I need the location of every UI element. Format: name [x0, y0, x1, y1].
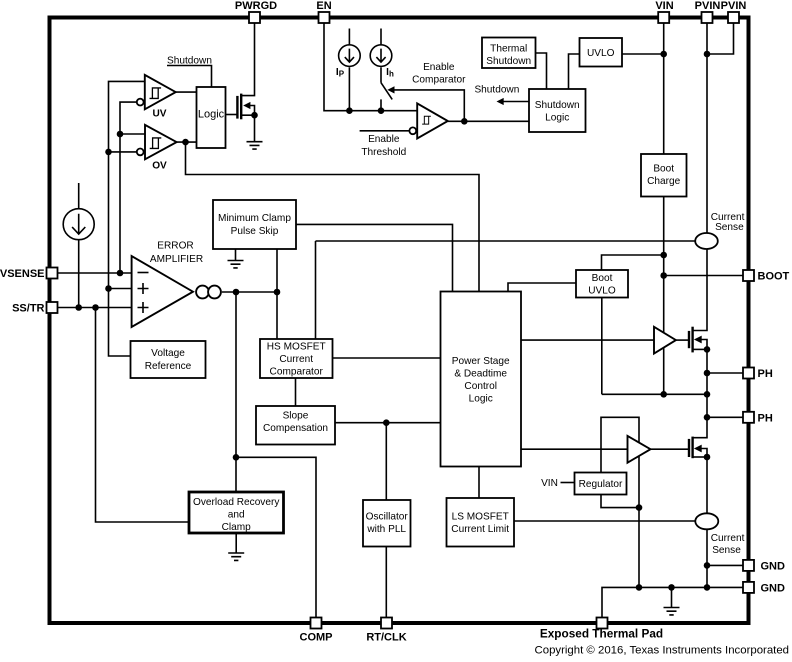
box Regulator [575, 473, 627, 495]
wire PWRGD drain to pin [241, 23, 254, 96]
svg-text:Voltage: Voltage [151, 348, 185, 359]
svg-text:Charge: Charge [647, 176, 680, 187]
pin PVIN 1 [702, 12, 713, 23]
wire UVLO to Shutdown Logic [569, 54, 580, 89]
svg-text:Shutdown: Shutdown [474, 85, 519, 96]
wire ground row to exposed pad [602, 587, 743, 617]
pin PWRGD [249, 12, 260, 23]
wire Ih current source stub and lead [380, 29, 382, 83]
svg-text:Thermal: Thermal [490, 44, 527, 55]
box Slope Compensation [256, 406, 335, 445]
svg-text:Enable: Enable [368, 134, 400, 145]
svg-text:UV: UV [152, 108, 166, 119]
wire current sense line to minimum clamp net [316, 240, 696, 242]
wire reference net vertical A [109, 81, 145, 356]
svg-text:GND: GND [761, 561, 786, 573]
svg-text:IP: IP [336, 67, 345, 79]
svg-text:Enable: Enable [423, 62, 455, 73]
wire boot return to PH node and Boot UVLO bottom [602, 298, 707, 395]
svg-text:VSENSE: VSENSE [0, 268, 45, 280]
svg-text:Logic: Logic [469, 394, 493, 405]
box Boot UVLO [576, 270, 628, 298]
svg-text:ERROR: ERROR [157, 241, 193, 252]
svg-text:& Deadtime: & Deadtime [454, 369, 507, 380]
pin COMP [311, 618, 322, 629]
pin VIN [658, 12, 669, 23]
svg-text:Sense: Sense [715, 222, 744, 233]
svg-text:Logic: Logic [198, 109, 225, 121]
current sense top ellipse [695, 233, 718, 249]
ground at Minimum Clamp [228, 261, 244, 268]
svg-text:Shutdown: Shutdown [167, 56, 212, 67]
switch blade Ih [381, 83, 392, 111]
wire PH pin 2 line [707, 416, 743, 418]
svg-text:AMPLIFIER: AMPLIFIER [150, 254, 203, 265]
wire VIN pin down to Boot Charge [663, 23, 665, 154]
label Current Sense top [711, 212, 745, 233]
box HS MOSFET Current Comparator [260, 339, 333, 378]
wire VIN label tap to Regulator [561, 482, 575, 484]
svg-text:Control: Control [464, 381, 497, 392]
wire PH pin 1 line [707, 372, 743, 374]
wire OV comparator output [177, 141, 197, 143]
box Logic [197, 87, 226, 148]
svg-text:Shutdown: Shutdown [535, 100, 580, 111]
wire Minimum Clamp output to Power Stage top [296, 224, 453, 291]
svg-text:Current: Current [711, 533, 745, 544]
box Minimum Clamp Pulse Skip [213, 200, 296, 249]
wire LS limit output to current sense [514, 520, 695, 522]
pin PH 1 [743, 368, 754, 379]
svg-text:UVLO: UVLO [588, 286, 616, 297]
svg-text:Compensation: Compensation [263, 423, 328, 434]
svg-text:Comparator: Comparator [270, 366, 324, 377]
wire slope compensation output [335, 422, 441, 424]
svg-text:Power Stage: Power Stage [452, 356, 510, 367]
comparator enable [409, 103, 447, 138]
svg-text:and: and [228, 510, 245, 521]
current sense bottom ellipse [695, 513, 718, 529]
svg-text:LS MOSFET: LS MOSFET [452, 512, 509, 523]
wire Boot UVLO left to Power Stage top [508, 283, 576, 292]
wire Power Stage to HS gate driver [521, 339, 654, 341]
wire GND pin 1 line [707, 564, 743, 566]
wire Logic to PWRGD MOSFET gate [226, 114, 238, 116]
wire UV comparator output [176, 91, 197, 93]
ground at PWRGD MOSFET [247, 142, 263, 149]
wire regulator bottom tap [601, 495, 639, 508]
wire EA node to Minimum Clamp and HS comparator [276, 249, 278, 339]
pin VSENSE [47, 268, 58, 279]
ground at bottom row [664, 608, 680, 615]
wire EN pin down and to enable comparator [324, 23, 417, 111]
svg-text:Oscillator: Oscillator [366, 512, 409, 523]
wire Overload ground stem [235, 533, 237, 553]
box Boot Charge [641, 154, 687, 197]
wire Thermal Shutdown to Shutdown Logic [536, 53, 547, 89]
box Overload Recovery and Clamp [189, 492, 284, 533]
svg-text:PWRGD: PWRGD [235, 0, 277, 12]
label Enable Threshold [361, 134, 406, 158]
wire Minimum Clamp ground stem [235, 249, 237, 260]
wire SS/TR to Overload Recovery [96, 308, 190, 523]
pin BOOT [743, 270, 754, 281]
wire PVIN2 join to PVIN1 [707, 23, 734, 54]
wire PVIN switch-node line down to HS MOSFET drain [693, 23, 707, 331]
box UVLO [580, 38, 623, 67]
wire PWRGD MOSFET source to ground [241, 115, 254, 141]
pin GND 1 [743, 560, 754, 571]
svg-text:Reference: Reference [145, 361, 192, 372]
box Shutdown Logic [529, 89, 586, 132]
ground at Overload Recovery [228, 553, 244, 560]
wire Shutdown arrow from Shutdown Logic [501, 101, 529, 103]
wire SS/TR line [58, 307, 132, 309]
svg-text:PH: PH [758, 413, 773, 425]
wire comparator feedback to switch [391, 90, 465, 121]
pin Exposed Thermal Pad [597, 618, 608, 629]
wire Boot Charge down to boot node [663, 197, 665, 395]
wire boot node to Boot UVLO top [602, 255, 664, 270]
svg-text:COMP: COMP [300, 632, 333, 644]
svg-text:Ih: Ih [386, 67, 394, 79]
box Voltage Reference [131, 341, 206, 378]
transistor LS MOSFET [651, 437, 708, 459]
svg-text:VIN: VIN [655, 0, 673, 12]
wire oscillator riser and RT/CLK drop [385, 423, 387, 618]
junction dots [346, 107, 353, 114]
svg-text:Boot: Boot [653, 164, 674, 175]
wire enable threshold input [360, 130, 410, 132]
wire SS current source leads [78, 183, 80, 308]
wire Power Stage to LS gate driver [521, 448, 628, 450]
svg-text:Overload Recovery: Overload Recovery [193, 497, 280, 508]
wire Ip current source stub and lead [348, 29, 350, 111]
svg-text:Threshold: Threshold [361, 147, 406, 158]
box Power Stage and Deadtime Control Logic [441, 292, 522, 467]
wire EA plus lead [109, 288, 132, 290]
svg-text:Clamp: Clamp [222, 522, 252, 533]
label ERROR AMPLIFIER [150, 241, 203, 265]
box LS MOSFET Current Limit [447, 498, 515, 547]
buffer LS gate driver [628, 436, 651, 463]
transistor HS MOSFET [676, 327, 707, 353]
wire LS MOSFET source to ground row [706, 457, 708, 587]
wire enable comparator output to Shutdown Logic [448, 120, 529, 122]
svg-text:Current: Current [279, 354, 313, 365]
svg-text:BOOT: BOOT [758, 271, 790, 283]
svg-text:Slope: Slope [283, 411, 309, 422]
svg-text:EN: EN [316, 0, 331, 12]
comparator UV [137, 75, 176, 109]
svg-text:GND: GND [761, 583, 786, 595]
pin PH 2 [743, 412, 754, 423]
svg-text:with PLL: with PLL [366, 524, 406, 535]
pin RT/CLK [381, 618, 392, 629]
wire regulator top loop down to ground row [601, 417, 639, 587]
arrowhead at switch [387, 86, 394, 93]
svg-text:Logic: Logic [545, 112, 569, 123]
wire OV net to Power Stage top [186, 142, 480, 291]
svg-text:PH: PH [758, 368, 773, 380]
op-amp error amplifier [132, 256, 221, 327]
wire HS comparator output [333, 357, 441, 359]
wire VSENSE line [58, 272, 132, 274]
svg-text:VIN: VIN [541, 478, 558, 489]
wire HS comparator to slope compensation [295, 378, 297, 406]
wire HS MOSFET source down through PH nodes to LS drain [693, 349, 707, 437]
current source Ih [370, 45, 392, 67]
svg-text:Exposed Thermal Pad: Exposed Thermal Pad [540, 627, 663, 641]
wire ground row gnd stem [671, 587, 673, 607]
wire HS comparator riser [315, 241, 317, 339]
svg-text:HS MOSFET: HS MOSFET [267, 342, 326, 353]
svg-text:Copyright © 2016, Texas Instru: Copyright © 2016, Texas Instruments Inco… [535, 645, 789, 657]
svg-text:SS/TR: SS/TR [12, 303, 44, 315]
wire Power Stage to LS MOSFET current limit [478, 467, 480, 499]
current source SS charge [63, 209, 94, 240]
pin GND 2 [743, 582, 754, 593]
wire OV plus lead [120, 133, 145, 135]
comparator OV [137, 125, 177, 159]
svg-text:Boot: Boot [592, 273, 613, 284]
wire UVLO to VIN line [622, 53, 664, 55]
wire EA output down to COMP and Overload [236, 292, 316, 618]
svg-text:Minimum Clamp: Minimum Clamp [218, 213, 291, 224]
transistor PWRGD MOSFET [237, 94, 254, 120]
box Thermal Shutdown [482, 38, 536, 69]
buffer HS gate driver [654, 327, 676, 354]
svg-text:UVLO: UVLO [587, 48, 615, 59]
label Enable Comparator [412, 62, 466, 85]
svg-text:Shutdown: Shutdown [486, 56, 531, 67]
svg-text:Pulse Skip: Pulse Skip [231, 226, 279, 237]
wire EA output [222, 291, 277, 293]
wire OV inverting lead [109, 151, 137, 153]
label Current Sense bottom [711, 533, 745, 556]
wire Shutdown label drop to Logic [167, 66, 212, 88]
box Oscillator with PLL [363, 500, 411, 547]
svg-text:PVIN: PVIN [695, 0, 721, 12]
svg-text:Sense: Sense [712, 545, 741, 556]
pin SS/TR [47, 302, 58, 313]
svg-text:Current Limit: Current Limit [451, 524, 509, 535]
current source Ip [339, 45, 361, 67]
wire BOOT pin line [664, 275, 743, 277]
pin PVIN 2 [728, 12, 739, 23]
svg-text:OV: OV [152, 161, 167, 172]
svg-text:RT/CLK: RT/CLK [366, 632, 406, 644]
wire feedback net vertical B [120, 102, 136, 273]
pin EN [319, 12, 330, 23]
arrowhead shutdown [497, 98, 504, 105]
svg-text:PVIN: PVIN [721, 0, 747, 12]
svg-text:Comparator: Comparator [412, 74, 466, 85]
svg-text:Regulator: Regulator [579, 479, 623, 490]
